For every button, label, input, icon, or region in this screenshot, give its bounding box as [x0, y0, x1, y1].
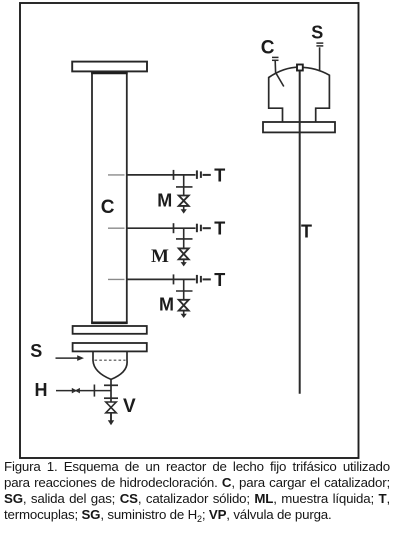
- frame border: [20, 3, 359, 458]
- H supply wire: [56, 390, 111, 392]
- valve M1: [179, 196, 189, 206]
- head flange: [263, 122, 335, 132]
- svg-text:C: C: [101, 197, 115, 218]
- column top edge: [91, 72, 127, 75]
- svg-text:C: C: [261, 37, 275, 58]
- svg-text:T: T: [214, 165, 225, 185]
- top flange of column: [72, 62, 147, 72]
- svg-text:T: T: [214, 270, 225, 290]
- tap 1 stub to T: [203, 174, 211, 176]
- tap 3 stub to T: [203, 278, 211, 280]
- S port wire: [319, 47, 321, 71]
- svg-text:S: S: [30, 341, 42, 361]
- valve M1 outlet arrow: [183, 206, 185, 211]
- H line tick: [93, 385, 95, 397]
- tap 3 junction tick: [173, 274, 175, 284]
- reactor head dome: [269, 67, 330, 122]
- bottom flange A: [73, 326, 147, 334]
- valve M2 outlet arrow: [183, 259, 185, 263]
- tap 3 branch wire: [183, 279, 185, 299]
- svg-text:M: M: [157, 190, 172, 210]
- S port dashes: [316, 42, 323, 44]
- funnel stem wire: [110, 379, 112, 421]
- svg-text:M: M: [159, 295, 174, 315]
- tap 1 junction tick: [173, 170, 175, 180]
- S arrow: [56, 357, 79, 359]
- column body C: [92, 71, 127, 322]
- tap line 2 thermowell dash: [108, 227, 125, 229]
- tap line 2 wire: [127, 227, 196, 229]
- stem tick lower: [104, 397, 118, 399]
- caption: [4, 459, 390, 527]
- svg-text:V: V: [123, 396, 136, 417]
- tap 2 stub to T: [203, 227, 211, 229]
- valve M2: [179, 248, 189, 259]
- thermocouple rod: [299, 71, 301, 394]
- head gland square: [297, 65, 303, 71]
- valve V outlet arrow: [110, 413, 112, 422]
- tap 1 branch wire: [183, 175, 185, 196]
- H check valve: [72, 389, 79, 393]
- svg-text:M: M: [151, 246, 169, 267]
- tap 2 union bars: [196, 224, 198, 233]
- tap line 3 thermowell dash: [108, 278, 125, 280]
- tap line 1 wire: [127, 174, 196, 176]
- tap 3 branch tick: [176, 290, 193, 292]
- tap line 3 wire: [127, 278, 196, 280]
- valve M3 outlet arrow: [183, 311, 185, 316]
- svg-text:T: T: [214, 219, 225, 239]
- tap 2 junction tick: [173, 223, 175, 233]
- tap 2 branch wire: [183, 228, 185, 248]
- funnel liquid level dashed line: [95, 359, 126, 361]
- funnel (catalyst discharge cone): [93, 352, 127, 380]
- stem tick upper: [104, 384, 118, 386]
- tap line 1 thermowell dash: [108, 174, 125, 176]
- valve M3: [179, 300, 189, 311]
- svg-text:H: H: [35, 380, 48, 400]
- tap 3 union bars: [196, 275, 198, 284]
- tap 1 union bars: [196, 170, 198, 179]
- C port wire: [275, 61, 284, 87]
- C port dashes: [272, 56, 279, 58]
- column bottom edge: [91, 321, 127, 324]
- svg-text:T: T: [301, 221, 312, 241]
- tap 1 branch tick: [176, 186, 193, 188]
- valve V (purge): [106, 402, 116, 413]
- tap 2 branch tick: [176, 238, 193, 240]
- svg-text:S: S: [311, 22, 323, 42]
- bottom flange B: [73, 343, 147, 351]
